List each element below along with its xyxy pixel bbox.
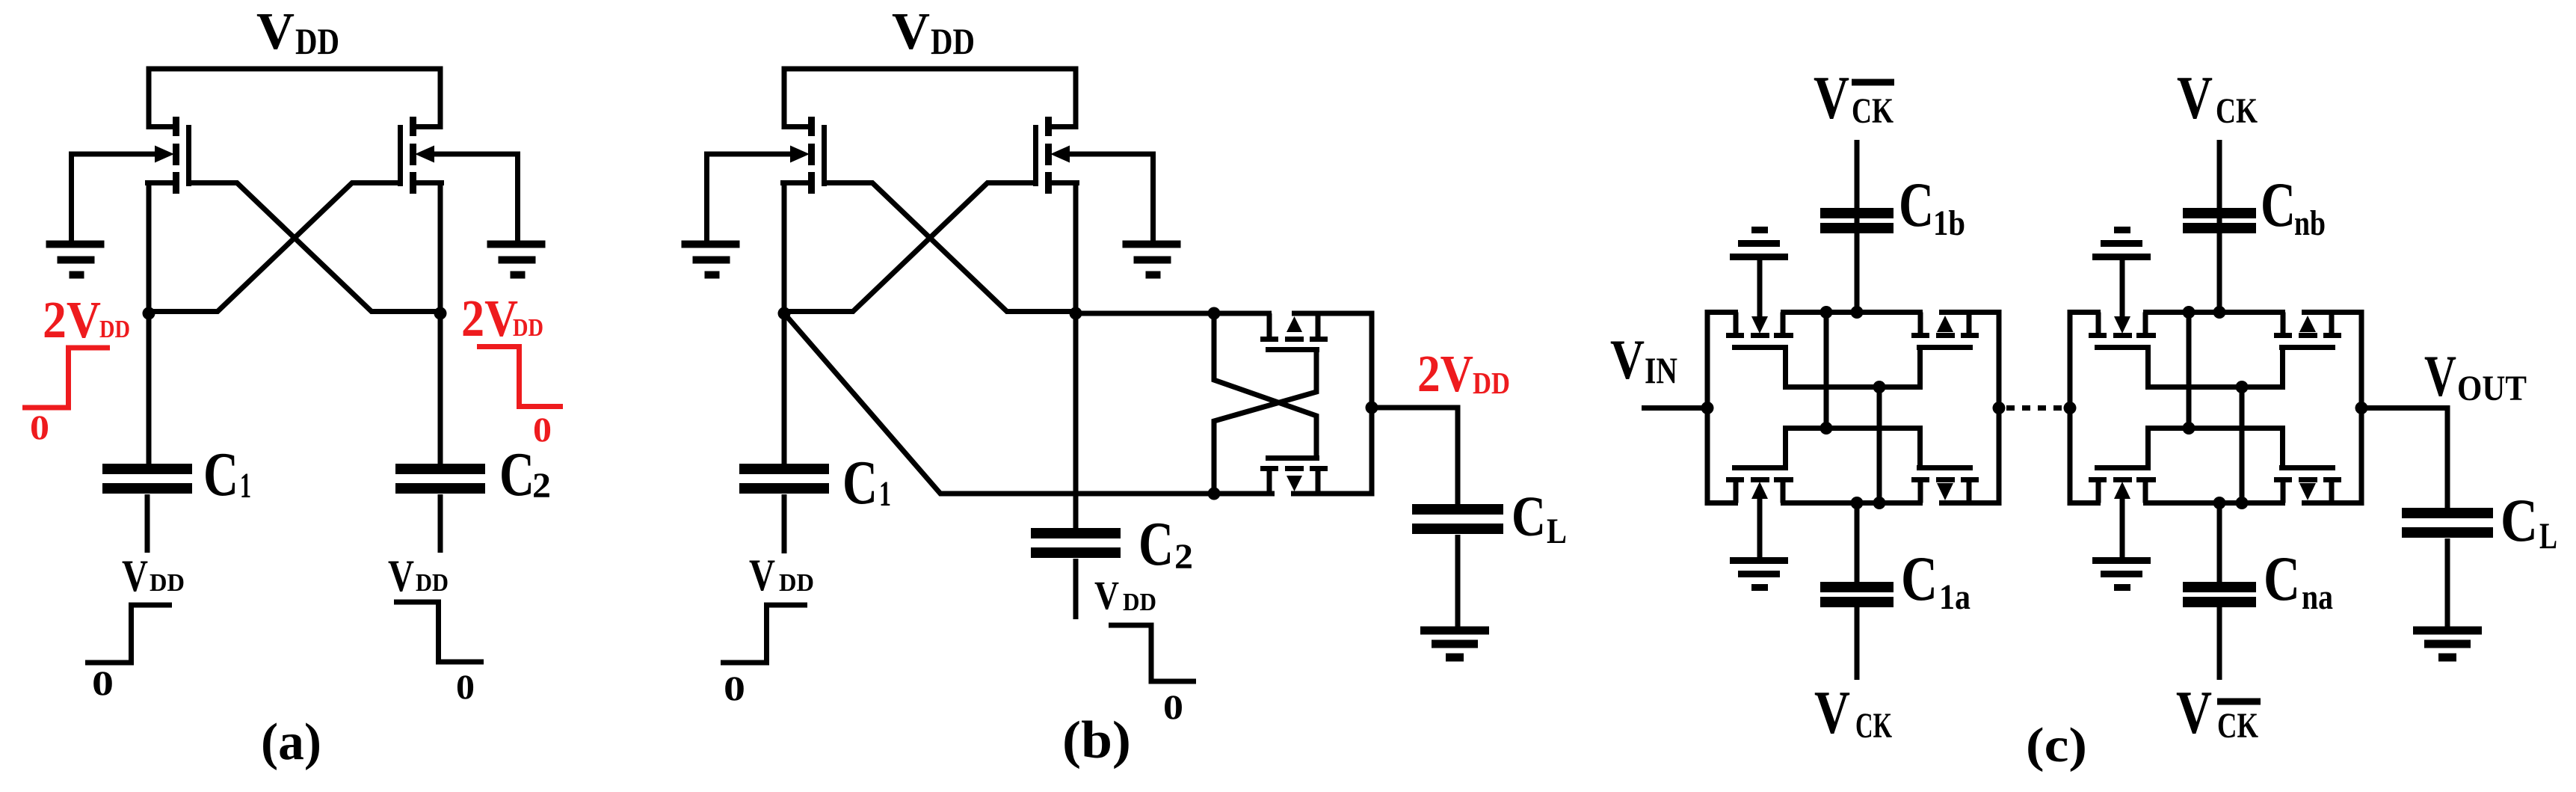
- wire VDD rail b: [784, 69, 1076, 127]
- right edge wire c1: [1997, 310, 2002, 506]
- wire top edge right piece c2: [2302, 310, 2361, 315]
- junction dots c1: [1820, 306, 1833, 319]
- node B a: [434, 307, 447, 320]
- stage block c1: left edge wire: [1705, 310, 1710, 506]
- waveform 2VDD step right (red) (a): [477, 347, 563, 407]
- source VDD step waveform (b): [1109, 625, 1196, 681]
- overline of VCK (top left): [1852, 79, 1894, 86]
- capacitor Cna: [2183, 582, 2256, 592]
- transistor c2-TR: [2274, 313, 2341, 348]
- wire node B to C2 (b): [1073, 313, 1079, 529]
- svg-text:C: C: [1899, 170, 1934, 240]
- wire Cna lower lead: [2217, 606, 2222, 680]
- capacitor C1a: [1820, 582, 1894, 592]
- svg-text:C: C: [1901, 544, 1938, 614]
- svg-text:0: 0: [1163, 688, 1183, 727]
- svg-text:(c): (c): [2026, 718, 2087, 773]
- svg-text:DD: DD: [99, 316, 130, 343]
- capacitor C2 (b): [1031, 528, 1121, 538]
- capacitor Cnb: [2183, 208, 2256, 218]
- svg-text:L: L: [1547, 512, 1567, 551]
- transistor M3b (top pass): [1260, 313, 1328, 350]
- bulk ground below BL c1: [1730, 499, 1788, 588]
- wire bottom edge left piece c2: [2070, 500, 2101, 506]
- capacitor C1b: [1820, 208, 1894, 218]
- output node dot (c): [2355, 402, 2368, 414]
- wire VIN input (c): [1642, 405, 1707, 411]
- wire M2a drain to node B: [438, 180, 443, 313]
- transistor c1-TR: [1911, 313, 1979, 348]
- svg-text:1b: 1b: [1933, 203, 1965, 243]
- wire gate M2b to node A (cross-coupling): [784, 183, 1036, 312]
- wire C1b upper lead: [1855, 140, 1860, 232]
- wire TL gate riser c2: [2145, 348, 2151, 387]
- wire C2 bottom lead (b): [1073, 559, 1079, 619]
- junction dot bottom (b): [1208, 488, 1221, 500]
- wire gate M1a to node B (cross-coupling): [189, 183, 441, 312]
- wire CL to ground (c): [2445, 538, 2450, 631]
- svg-text:0: 0: [724, 669, 745, 708]
- wire bottom gates rail c2: [2145, 426, 2285, 431]
- wire output right edge (b): [1369, 313, 1375, 494]
- svg-text:DD: DD: [1123, 589, 1156, 616]
- svg-text:OUT: OUT: [2457, 369, 2527, 408]
- ground (left) b: [682, 245, 740, 275]
- wire node A to bottom gates rail c2: [2187, 313, 2192, 429]
- junction dot top (b): [1208, 307, 1221, 320]
- svg-text:V: V: [388, 551, 414, 601]
- svg-text:2V: 2V: [1417, 346, 1473, 403]
- ground (right) a: [487, 245, 546, 275]
- transistor M2a (right NMOS): [401, 117, 445, 194]
- transistor M2b (right NMOS): [1036, 117, 1080, 194]
- wire C1 bottom lead (b): [782, 494, 787, 553]
- wire C1 bottom lead (a): [145, 494, 150, 553]
- wire C2 bottom lead (a): [438, 494, 443, 553]
- wire M1b drain to node A: [782, 180, 787, 313]
- wire bottom gates rail c1: [1783, 426, 1923, 431]
- wire bottom rail to M3b gate (cross) (b): [1214, 350, 1316, 494]
- transistor c1-BL: [1726, 468, 1793, 503]
- source VDD step waveform right (a): [394, 602, 484, 662]
- transistor M4b (bottom pass): [1260, 458, 1328, 494]
- wire node B to M4b gate (cross) (b): [1214, 313, 1316, 458]
- svg-text:1: 1: [879, 474, 891, 514]
- wire output top section (b): [1292, 311, 1375, 316]
- svg-text:DD: DD: [416, 569, 449, 597]
- wire top cap lead c1: [1855, 209, 1860, 313]
- wire BL gate riser c2: [2145, 429, 2151, 468]
- svg-text:L: L: [2539, 515, 2557, 556]
- wire BR gate riser c1: [1917, 429, 1923, 468]
- wire node A to C1 (b): [782, 313, 787, 465]
- stage block c2: left edge wire: [2068, 310, 2073, 506]
- svg-text:C: C: [1138, 509, 1174, 579]
- wire VOUT to CL (c): [2361, 408, 2447, 510]
- svg-text:C: C: [499, 440, 534, 509]
- wire node B to top gates rail c2: [2240, 387, 2245, 503]
- wire bottom edge right piece c1: [1939, 500, 1999, 506]
- transistor M1b (left NMOS): [780, 117, 825, 194]
- svg-text:C: C: [2500, 486, 2538, 554]
- wire bottom edge main piece (node B) c2: [2143, 500, 2285, 506]
- wire top edge right piece c1: [1939, 310, 1999, 315]
- wire TL gate riser c1: [1783, 348, 1788, 387]
- overline of VCK (bottom right): [2217, 699, 2261, 705]
- wire top edge main piece (node A) c1: [1781, 310, 1923, 315]
- bulk ground above TL c2: [2092, 230, 2151, 319]
- wire bottom edge right piece c2: [2302, 500, 2361, 506]
- inter-stage dashed wire (c): [1993, 402, 2006, 414]
- wire TR gate riser c1: [1917, 348, 1923, 387]
- svg-text:V: V: [1094, 573, 1119, 618]
- wire M1a bulk to ground: [72, 154, 157, 241]
- transistor c1-TL: [1726, 313, 1793, 348]
- wire M2a bulk to ground: [433, 154, 518, 241]
- wire TR gate riser c2: [2280, 348, 2285, 387]
- svg-text:0: 0: [533, 411, 552, 449]
- svg-text:DD: DD: [779, 569, 814, 597]
- svg-text:V: V: [1814, 678, 1850, 746]
- wire M2b drain to node B: [1073, 180, 1079, 313]
- transistor M1a (left NMOS): [145, 117, 189, 194]
- svg-text:V: V: [2176, 678, 2212, 746]
- svg-text:DD: DD: [513, 314, 543, 342]
- bulk ground below BL c2: [2092, 499, 2151, 588]
- wire CL to ground (b): [1455, 535, 1461, 627]
- wire C1a lower lead: [1855, 606, 1860, 680]
- node A b: [778, 307, 791, 320]
- svg-text:CK: CK: [2216, 91, 2258, 131]
- waveform 2VDD step left (red) (a): [22, 348, 110, 408]
- wire Cnb upper lead: [2217, 140, 2222, 232]
- svg-text:DD: DD: [1473, 366, 1510, 400]
- wire node B to pass stage (b): [1076, 311, 1272, 316]
- svg-text:na: na: [2302, 577, 2333, 617]
- svg-text:DD: DD: [150, 569, 185, 597]
- wire bottom edge left piece c1: [1707, 500, 1738, 506]
- output node dot (b): [1366, 402, 1378, 414]
- junction dots c2: [2183, 306, 2196, 319]
- svg-text:CK: CK: [1855, 706, 1892, 746]
- svg-text:0: 0: [456, 668, 475, 707]
- wire bottom cap lead c1: [1855, 503, 1860, 584]
- capacitor CL (b): [1412, 504, 1503, 515]
- capacitor C1 (b): [739, 464, 829, 474]
- wire top cap lead c2: [2217, 209, 2222, 313]
- ground (left) a: [46, 245, 105, 275]
- wire top edge main piece (node A) c2: [2143, 310, 2285, 315]
- node B b: [1070, 307, 1082, 320]
- wire output to CL (b): [1372, 408, 1458, 506]
- wire top gates rail c2: [2145, 384, 2285, 390]
- svg-text:0: 0: [30, 408, 49, 447]
- svg-text:C: C: [203, 440, 238, 509]
- wire top gates rail c1: [1783, 384, 1923, 390]
- svg-text:2V: 2V: [43, 292, 101, 349]
- wire M1a drain to node A: [147, 180, 152, 313]
- bulk ground above TL c1: [1730, 230, 1788, 319]
- svg-text:1: 1: [240, 466, 251, 506]
- transistor c2-BR: [2274, 468, 2341, 503]
- svg-text:IN: IN: [1645, 349, 1677, 391]
- svg-text:V: V: [749, 550, 775, 600]
- svg-text:0: 0: [92, 664, 114, 703]
- wire M2b bulk to ground: [1068, 154, 1153, 241]
- capacitor C2 (a): [395, 464, 485, 474]
- right edge wire c2: [2359, 310, 2364, 506]
- svg-text:CK: CK: [1852, 91, 1894, 131]
- svg-text:C: C: [842, 448, 878, 518]
- wire M1b bulk to ground: [707, 154, 792, 241]
- wire node A to C1 (a): [147, 313, 152, 465]
- wire output bottom section (b): [1291, 491, 1375, 497]
- wire bottom edge main piece (node B) c1: [1781, 500, 1923, 506]
- wire VDD rail a: [149, 69, 440, 127]
- wire BL gate riser c1: [1783, 429, 1788, 468]
- svg-text:2: 2: [532, 466, 551, 506]
- ground (right) b: [1123, 245, 1181, 275]
- capacitor CL (c): [2402, 508, 2493, 518]
- svg-text:V: V: [2424, 343, 2456, 408]
- svg-text:C: C: [2261, 170, 2296, 240]
- node A a: [143, 307, 155, 320]
- capacitor C1 (a): [102, 464, 192, 474]
- ground CL (b): [1420, 627, 1489, 635]
- wire gate M1b to node B (cross-coupling): [825, 183, 1076, 312]
- wire BR gate riser c2: [2280, 429, 2285, 468]
- transistor c1-BR: [1911, 468, 1979, 503]
- svg-text:V: V: [122, 551, 148, 601]
- transistor c2-TL: [2089, 313, 2156, 348]
- svg-text:C: C: [2264, 544, 2300, 614]
- wire gate M2a to node A (cross-coupling): [149, 183, 401, 312]
- source VDD step waveform left (b): [721, 605, 807, 663]
- svg-text:DD: DD: [295, 20, 339, 62]
- wire node A to bottom gates rail c1: [1824, 313, 1829, 429]
- wire node A to bottom rail (diagonal) (b): [784, 313, 1275, 494]
- ground CL (c): [2413, 627, 2482, 635]
- svg-text:2V: 2V: [461, 290, 518, 348]
- input node dot (c): [1701, 402, 1714, 414]
- svg-text:(a): (a): [261, 713, 321, 771]
- source VDD step waveform left (a): [85, 605, 172, 663]
- svg-text:DD: DD: [931, 20, 975, 62]
- svg-text:1a: 1a: [1939, 577, 1970, 617]
- svg-text:2: 2: [1174, 537, 1193, 577]
- svg-text:V: V: [256, 3, 295, 61]
- svg-text:CK: CK: [2217, 706, 2258, 746]
- svg-text:V: V: [2177, 64, 2213, 132]
- svg-text:nb: nb: [2294, 203, 2326, 243]
- svg-text:V: V: [1814, 64, 1849, 132]
- svg-text:V: V: [892, 3, 930, 61]
- svg-text:C: C: [1512, 485, 1546, 548]
- wire node B to top gates rail c1: [1877, 387, 1882, 503]
- wire top edge left piece c1: [1707, 310, 1738, 315]
- wire node B to C2 (a): [438, 313, 443, 465]
- svg-text:V: V: [1610, 329, 1645, 391]
- wire top edge left piece c2: [2070, 310, 2101, 315]
- svg-text:(b): (b): [1062, 711, 1131, 770]
- transistor c2-BL: [2089, 468, 2156, 503]
- wire bottom cap lead c2: [2217, 503, 2222, 584]
